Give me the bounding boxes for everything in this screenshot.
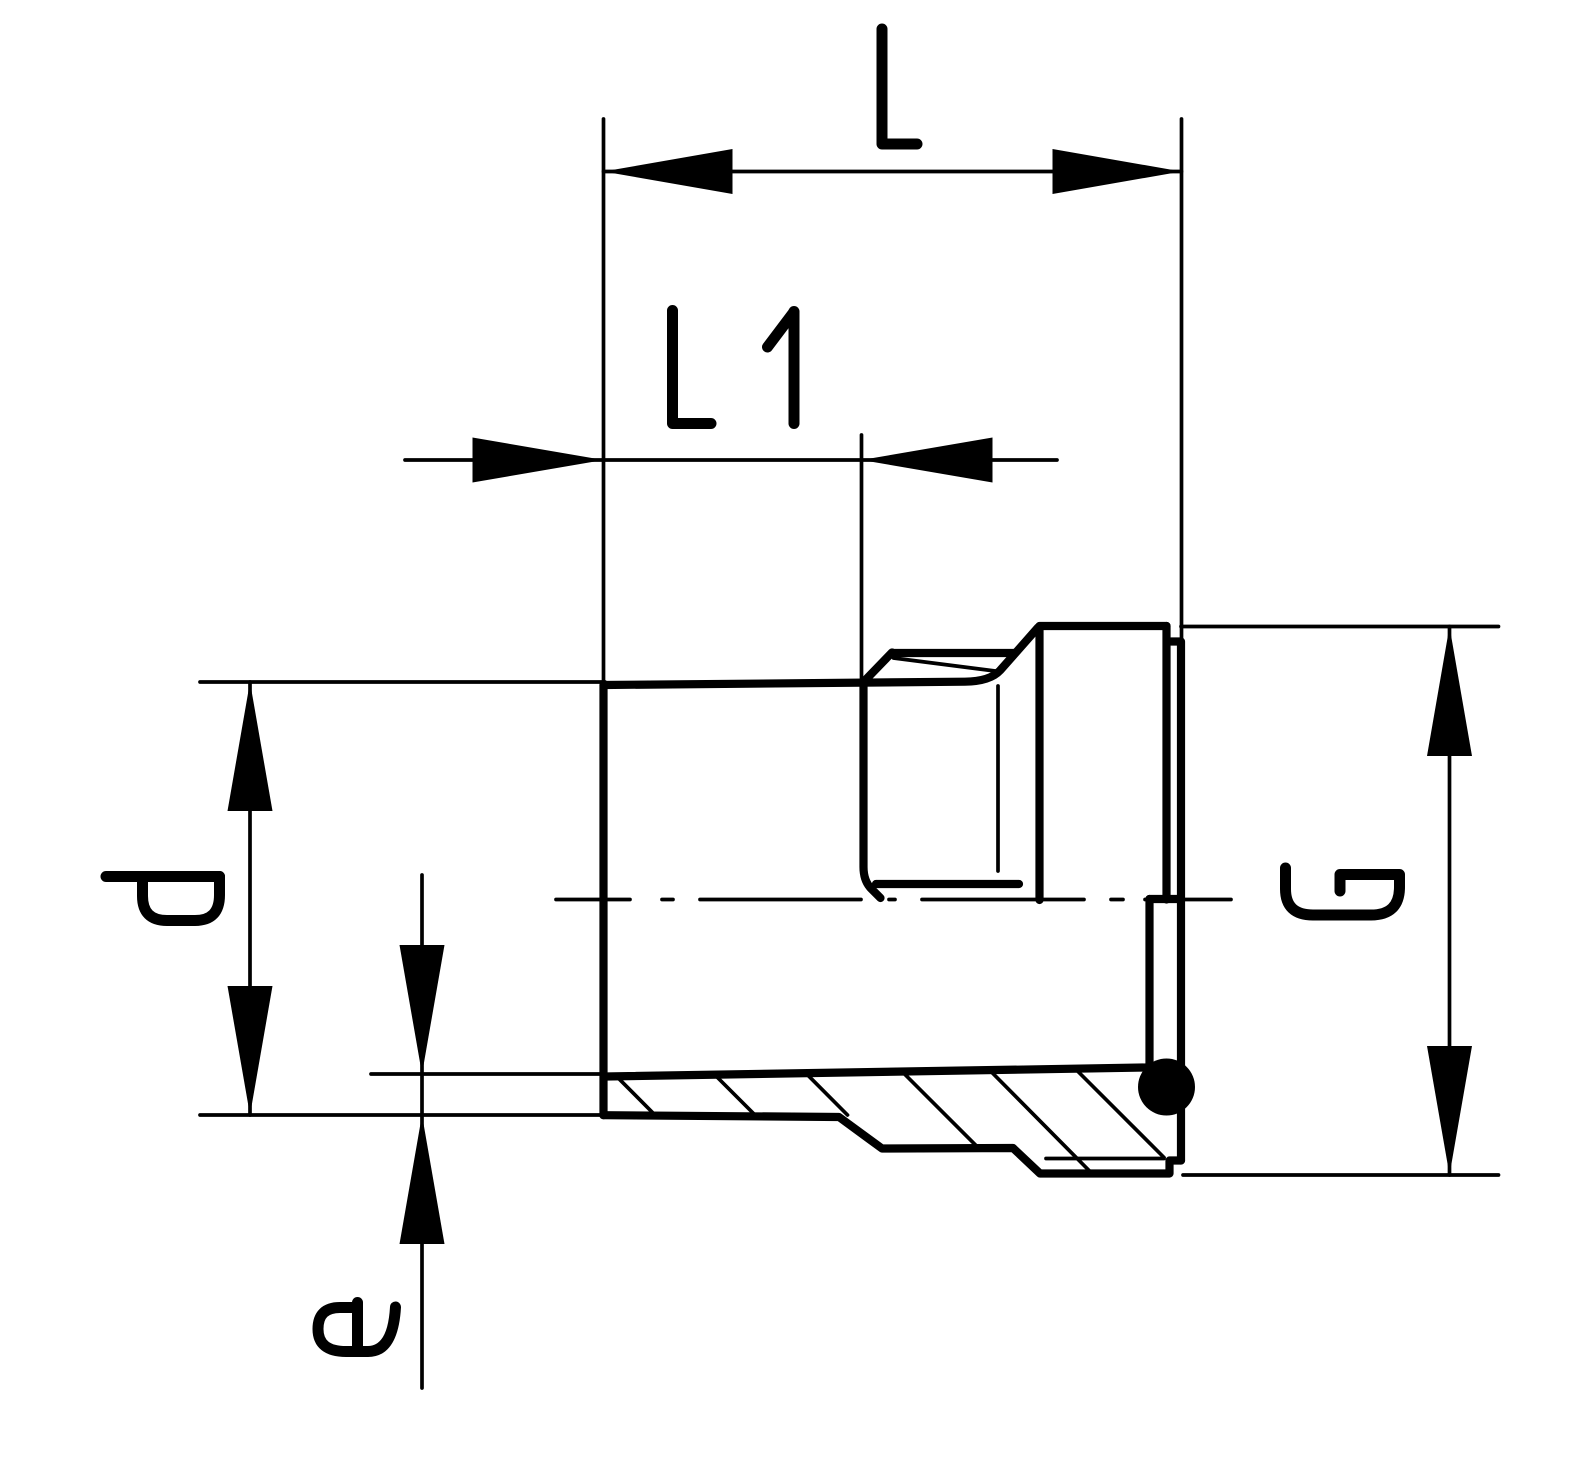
dimension e: lower arrowhead (below, pointing up) <box>400 1115 445 1244</box>
dimension L: dimension line <box>604 170 1182 174</box>
thread root line (thin) <box>894 658 1000 672</box>
dimension d: bottom arrowhead <box>228 986 273 1115</box>
dimension L: right arrowhead <box>1053 149 1182 194</box>
part outline: socket top edge with thread runout to collar corner <box>604 628 1039 686</box>
part outline: right end face <box>1162 626 1170 900</box>
O-ring (filled) <box>1138 1059 1195 1116</box>
part outline: collar left face <box>1035 627 1043 900</box>
dimension e: upper arrowhead (above, pointing down) <box>400 945 445 1074</box>
end chamfer thin line bottom right <box>1046 1157 1164 1161</box>
label e (rotated) <box>352 1303 363 1347</box>
right face stub at centerline <box>1150 895 1182 903</box>
dimension d: bottom extension line <box>200 1113 605 1117</box>
dimension e: upper extension line <box>371 1072 606 1076</box>
lower right groove wall <box>1145 899 1153 1066</box>
dimension L1: right extension line <box>860 435 864 683</box>
thread end line (thin vertical) <box>996 686 1000 871</box>
dimension L: left arrowhead <box>604 149 733 194</box>
internal socket bottom face <box>864 681 881 898</box>
dimension G: dimension line <box>1448 627 1452 1176</box>
dimension L1: left arrowhead (outside, pointing right) <box>473 438 604 483</box>
part outline: socket left edge <box>599 685 607 1115</box>
hatch lines (section) <box>616 1068 1164 1174</box>
internal bore line upper (behind thread) <box>876 880 1019 888</box>
dimension G: top arrowhead <box>1427 627 1472 757</box>
dimension d: top arrowhead <box>228 682 273 811</box>
dimension L: left extension line <box>602 119 606 684</box>
part outline: bottom profile with steps <box>604 1115 1182 1173</box>
label d (rotated) <box>106 871 220 882</box>
centerline (dash-dot axis) <box>556 898 1231 902</box>
dimension L: right extension line <box>1180 119 1184 642</box>
part outline: thread crest <box>892 649 1015 657</box>
part outline: thread chamfer diagonal <box>863 653 892 683</box>
label L1 <box>673 311 712 424</box>
dimension G: bottom arrowhead <box>1427 1046 1472 1175</box>
label G (rotated) <box>1286 868 1400 915</box>
dimension d: top extension line <box>200 680 605 684</box>
label L <box>882 29 917 144</box>
part outline: collar top edge <box>1040 622 1167 630</box>
part outline: recessed lip at right end <box>1171 642 1181 1161</box>
dimension e: dimension line <box>420 875 424 1388</box>
dimension L1: right arrowhead (outside, pointing left) <box>862 438 993 483</box>
dimension G: lower extension line <box>1183 1173 1499 1177</box>
dimension G: upper extension line <box>1181 625 1499 629</box>
dimension d: dimension line <box>248 682 252 1115</box>
lower bore line (section, slightly tapered) <box>606 1068 1146 1077</box>
dimension L1: dimension line <box>405 458 1057 462</box>
